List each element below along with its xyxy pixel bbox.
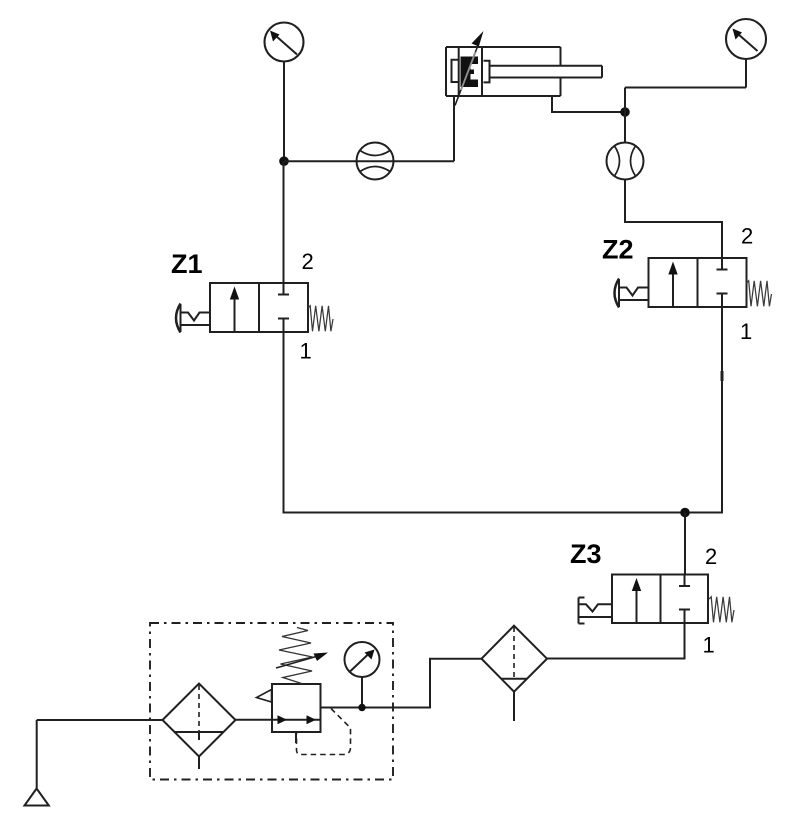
svg-text:1: 1: [703, 633, 715, 658]
svg-text:Z3: Z3: [570, 539, 602, 569]
svg-text:Z1: Z1: [171, 249, 203, 279]
svg-text:2: 2: [705, 544, 717, 569]
svg-text:Z2: Z2: [602, 235, 634, 265]
svg-text:1: 1: [300, 339, 312, 364]
svg-text:1: 1: [740, 319, 752, 344]
svg-text:2: 2: [741, 224, 753, 249]
svg-text:2: 2: [302, 249, 314, 274]
